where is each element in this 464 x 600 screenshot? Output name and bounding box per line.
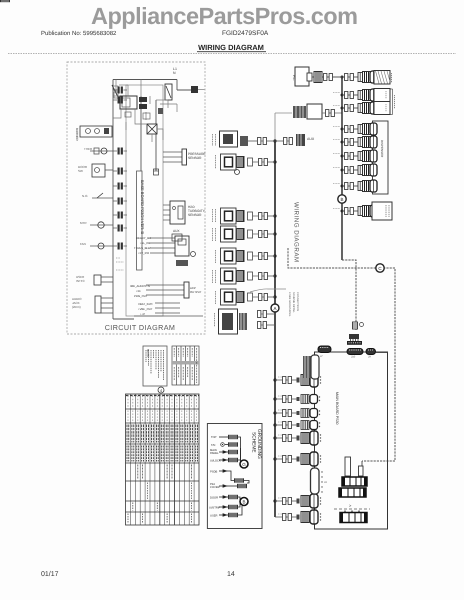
svg-text:B: B: [242, 500, 245, 505]
svg-text:PRG_OUT: PRG_OUT: [134, 294, 148, 298]
svg-text:G: G: [242, 462, 246, 467]
svg-text:N: N: [173, 71, 176, 75]
svg-text:01/17: 01/17: [41, 570, 59, 578]
svg-text:+5F: +5F: [136, 289, 141, 293]
svg-text:PANEL: PANEL: [210, 452, 219, 455]
svg-text:NOTE: NOTE: [146, 349, 150, 357]
svg-text:SCHEME DETAIL: SCHEME DETAIL: [292, 292, 295, 313]
svg-text:INTFC: INTFC: [76, 279, 86, 283]
svg-text:SW: SW: [78, 169, 83, 173]
svg-text:COVER: COVER: [210, 486, 220, 489]
svg-text:THER: THER: [84, 147, 93, 151]
svg-text:SENSOR: SENSOR: [188, 213, 202, 217]
svg-text:USER: USER: [210, 515, 218, 518]
svg-text:WIRING DIAGRAM: WIRING DIAGRAM: [293, 202, 300, 263]
svg-text:4 SEE GROUNDING: 4 SEE GROUNDING: [288, 292, 291, 316]
svg-text:UI/STRIP: UI/STRIP: [209, 507, 221, 510]
svg-text:PSDB: PSDB: [210, 471, 218, 474]
svg-text:TXRLS_BLW: TXRLS_BLW: [134, 246, 151, 250]
svg-text:J10: J10: [351, 356, 356, 359]
svg-text:14: 14: [227, 571, 235, 578]
svg-text:IME_AUDIO/TN: IME_AUDIO/TN: [130, 284, 150, 288]
svg-text:DISPENSER: DISPENSER: [380, 140, 384, 158]
svg-text:A: A: [273, 306, 276, 311]
svg-text:J3: J3: [324, 481, 327, 484]
svg-text:>: >: [349, 503, 352, 508]
svg-text:J7: J7: [320, 355, 323, 358]
svg-text:MAIN BOARD PS30: MAIN BOARD PS30: [335, 392, 339, 425]
svg-text:DOOR: DOOR: [210, 497, 218, 500]
svg-text:TOP: TOP: [211, 436, 217, 439]
svg-text:++P: ++P: [140, 312, 145, 316]
svg-text:N.O.: N.O.: [82, 194, 88, 198]
svg-text:Publication No: 5995683082: Publication No: 5995683082: [41, 30, 117, 37]
svg-text:BASE BOARD P23/24 VER: B: BASE BOARD P23/24 VER: B: [140, 180, 145, 234]
svg-text:CIRCUIT DIAGRAM: CIRCUIT DIAGRAM: [105, 323, 176, 332]
svg-text:AUX: AUX: [307, 137, 315, 141]
svg-text:+5V_IO2: +5V_IO2: [138, 251, 150, 255]
svg-text:SCHEME: SCHEME: [251, 432, 257, 453]
svg-text:B: B: [340, 197, 343, 202]
svg-text:GROUNDING: GROUNDING: [256, 429, 262, 459]
svg-text:BURNER: BURNER: [75, 128, 79, 142]
svg-text:+VBF_OUT: +VBF_OUT: [138, 307, 153, 311]
svg-text:CONNECTIONS: CONNECTIONS: [296, 292, 299, 311]
svg-text:SENSOR: SENSOR: [188, 156, 202, 160]
svg-text:+5L_CB: +5L_CB: [140, 241, 150, 245]
svg-text:VBAT_IN/O: VBAT_IN/O: [138, 302, 153, 306]
svg-text:AppliancePartsPros.com: AppliancePartsPros.com: [91, 3, 358, 29]
svg-text:T/N: T/N: [211, 444, 215, 447]
svg-text:FGID2479SF0A: FGID2479SF0A: [222, 30, 269, 37]
svg-text:OUTPUT: OUTPUT: [190, 290, 202, 294]
svg-text:READY_BR: READY_BR: [136, 236, 151, 240]
svg-text:WIRING DIAGRAM: WIRING DIAGRAM: [198, 43, 264, 52]
svg-text:(2mm): (2mm): [72, 305, 81, 309]
svg-text:FAN: FAN: [80, 242, 86, 246]
svg-text:J9: J9: [368, 356, 371, 359]
svg-text:P.C.: P.C.: [292, 75, 296, 81]
svg-text:MTR: MTR: [80, 221, 87, 225]
svg-text:AUX: AUX: [173, 229, 180, 233]
